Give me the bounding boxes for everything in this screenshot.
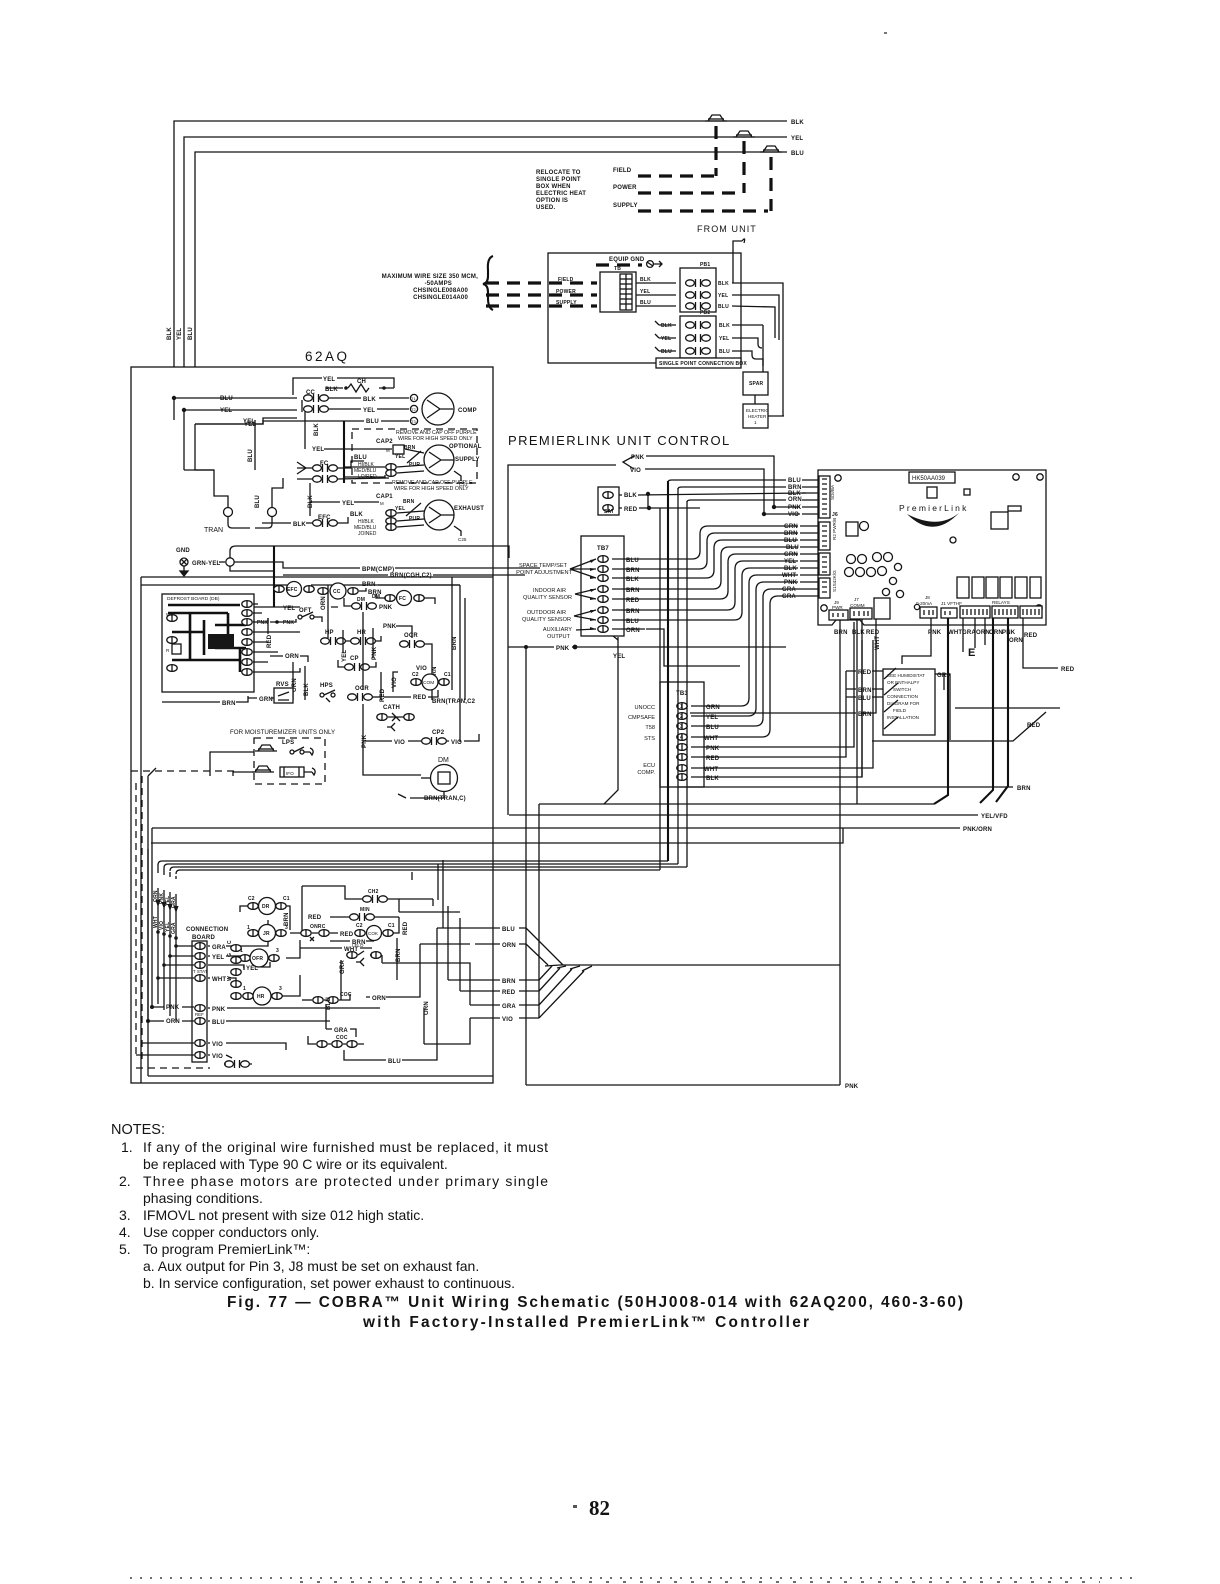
svg-text:YEL: YEL — [283, 606, 295, 612]
svg-text:GRN-YEL: GRN-YEL — [192, 561, 221, 567]
svg-text:FC: FC — [399, 596, 406, 602]
svg-text:RELOCATE TO: RELOCATE TO — [536, 170, 581, 176]
wire pnk border — [508, 646, 786, 648]
wire orn vert — [327, 585, 329, 638]
wire gra — [935, 674, 950, 690]
contact HR — [351, 630, 376, 645]
svg-text:BLK: BLK — [852, 630, 865, 636]
svg-text:SAT: SAT — [604, 509, 614, 515]
svg-text:QUALITY SENSOR: QUALITY SENSOR — [523, 595, 572, 601]
defrost board DB — [162, 594, 254, 692]
svg-text:J1 VFTHF: J1 VFTHF — [941, 601, 962, 606]
svg-text:ORN: ORN — [502, 943, 516, 949]
svg-text:PWR: PWR — [832, 605, 843, 610]
F terminal — [386, 510, 396, 517]
svg-text:IFO: IFO — [286, 771, 294, 776]
svg-text:COM: COM — [423, 680, 434, 686]
dot pnk border — [573, 645, 578, 650]
wires pb2 to right bus — [732, 325, 763, 366]
diode pair — [377, 713, 414, 731]
contact row top CH — [345, 889, 399, 912]
note RELOCATE — [536, 170, 586, 211]
svg-text:GRA: GRA — [334, 1028, 348, 1034]
caption auxiliary — [543, 627, 572, 640]
svg-text:YEL: YEL — [784, 559, 796, 565]
wire grn — [248, 697, 274, 699]
svg-text:WHT: WHT — [704, 767, 718, 773]
contactor CC poles — [304, 390, 329, 413]
svg-text:BLK: BLK — [293, 522, 306, 528]
humidistat wire BRN — [846, 688, 883, 690]
wire dm left — [421, 777, 430, 779]
wire brn under — [330, 940, 374, 942]
caption space temp — [516, 563, 572, 576]
TB3 risers to stack — [722, 575, 798, 706]
thick BLU drop — [343, 421, 345, 483]
svg-text:1: 1 — [247, 925, 250, 931]
svg-text:GRA: GRA — [171, 896, 177, 908]
svg-text:RELAYS: RELAYS — [992, 600, 1010, 605]
svg-text:S1S42K/G: S1S42K/G — [832, 570, 837, 592]
svg-text:POWER: POWER — [613, 185, 637, 191]
svg-text:OUTPUT: OUTPUT — [547, 634, 571, 640]
svg-text:BLK: BLK — [784, 566, 797, 572]
wire 841 — [151, 828, 843, 843]
board bottom labels — [834, 630, 1038, 644]
bundle rotated labels top — [153, 890, 177, 908]
wire blk sat — [619, 493, 806, 495]
brace — [483, 256, 493, 310]
svg-text:BLU: BLU — [255, 495, 261, 508]
contact CP2 — [394, 737, 462, 746]
svg-text:BRN(TRAN,C2: BRN(TRAN,C2 — [432, 699, 476, 705]
rail BPM — [274, 562, 360, 568]
comp aux circle — [411, 672, 451, 690]
wire brn bl — [162, 696, 248, 702]
svg-text:BLU: BLU — [719, 349, 730, 355]
svg-text:INDOOR AIR: INDOOR AIR — [533, 588, 566, 594]
svg-text:INSTALLATION: INSTALLATION — [887, 715, 919, 720]
cb wire pnk right — [208, 1007, 380, 1009]
svg-text:YEL: YEL — [640, 289, 650, 295]
wire gnd up loop — [230, 546, 509, 571]
wire cp — [338, 660, 376, 667]
TB7 box — [581, 536, 624, 636]
svg-text:R2 PWR/B: R2 PWR/B — [832, 518, 837, 540]
left connector J4 — [819, 570, 837, 598]
svg-text:4.: 4. — [119, 1224, 131, 1240]
svg-text:BRN: BRN — [502, 979, 516, 985]
relay HR — [243, 986, 282, 1005]
wire heater — [755, 325, 784, 416]
svg-text:YEL: YEL — [220, 408, 232, 414]
svg-text:BLK: BLK — [640, 277, 651, 283]
plug block PB2 — [680, 310, 716, 358]
bottom part box — [874, 598, 890, 619]
caption indoor air — [523, 588, 572, 601]
wire BLU L3 — [195, 152, 787, 424]
svg-text:WHT: WHT — [948, 630, 962, 636]
cb wire wht out — [208, 978, 236, 985]
svg-text:EXHAUST: EXHAUST — [454, 506, 484, 512]
svg-text:E: E — [968, 647, 975, 659]
cap2 body — [386, 445, 404, 454]
chevron diagonals — [526, 928, 592, 1018]
wire bpm cont — [395, 567, 540, 569]
left connector J2 — [819, 553, 830, 575]
svg-text:SPACE TEMP/SET: SPACE TEMP/SET — [519, 563, 568, 569]
svg-text:PB1: PB1 — [700, 262, 710, 268]
TB3 box — [660, 682, 704, 787]
dashed feeder FIELD — [486, 281, 597, 284]
svg-text:EQUIP GND: EQUIP GND — [609, 257, 645, 263]
contact HP — [321, 630, 346, 645]
svg-text:RED: RED — [1061, 667, 1075, 673]
svg-text:ORN: ORN — [788, 497, 802, 503]
svg-text:YEL: YEL — [243, 419, 255, 425]
note remove and cap off 1 — [396, 430, 477, 442]
cb wire blu right — [208, 1020, 330, 1022]
svg-text:MAXIMUM WIRE SIZE 350 MCM,: MAXIMUM WIRE SIZE 350 MCM, — [382, 274, 478, 280]
wire YEL L2 — [184, 137, 787, 410]
wire net left — [174, 398, 214, 470]
wire pnk right — [396, 626, 412, 638]
svg-text:YEL: YEL — [661, 336, 671, 342]
svg-text:BLU: BLU — [366, 419, 379, 425]
svg-text:To program PremierLink™:: To program PremierLink™: — [143, 1241, 310, 1257]
svg-text:3: 3 — [276, 948, 279, 954]
svg-text:CC: CC — [333, 589, 341, 595]
terminal gnd — [226, 558, 234, 566]
bracket under FROM UNIT — [733, 239, 745, 253]
dashed stub bottom — [131, 771, 236, 1068]
contact CP — [345, 656, 370, 671]
board drop wires jogs — [934, 618, 1008, 804]
svg-text:RED: RED — [340, 932, 354, 938]
wire red exit right — [1023, 618, 1058, 668]
stub BRN — [470, 979, 539, 981]
wire red sat — [619, 507, 700, 509]
svg-text:DEFROST BOARD (DB): DEFROST BOARD (DB) — [167, 596, 220, 602]
terminal block TB — [600, 266, 636, 312]
exh wires — [397, 511, 424, 527]
slash pointer exhaust — [406, 503, 421, 516]
logo swoosh — [907, 513, 959, 527]
svg-text:CHSINGLE008A00: CHSINGLE008A00 — [413, 288, 468, 294]
dashed riser from lug L2 — [742, 141, 745, 193]
supply fan wires — [344, 449, 424, 477]
svg-text:ORN: ORN — [372, 996, 386, 1002]
svg-text:Use copper conductors only.: Use copper conductors only. — [143, 1224, 319, 1240]
wire BLK L1 — [174, 121, 787, 398]
svg-text:a. Aux output for Pin 3, J8 mu: a. Aux output for Pin 3, J8 must be set … — [143, 1258, 479, 1274]
contact OCR — [400, 633, 432, 650]
relay coil FC — [385, 591, 424, 606]
vertical rail left inner — [140, 577, 142, 1083]
svg-text:ORN: ORN — [976, 630, 990, 636]
svg-text:YEL: YEL — [718, 293, 728, 299]
wire blk red drops — [857, 619, 862, 804]
svg-text:POWER: POWER — [556, 289, 576, 295]
lug on L1 — [705, 115, 727, 121]
svg-text:PNK: PNK — [379, 605, 393, 611]
svg-text:SPAR: SPAR — [749, 381, 764, 387]
svg-text:C2: C2 — [356, 923, 363, 929]
svg-text:RED: RED — [626, 598, 640, 604]
cb wires in — [158, 946, 194, 978]
svg-text:Three phase motors are protect: Three phase motors are protected under p… — [143, 1173, 548, 1189]
SAT box — [598, 487, 619, 515]
dashed feeder POWER — [486, 293, 597, 296]
svg-text:C1: C1 — [444, 672, 451, 678]
svg-text:C1: C1 — [388, 923, 395, 929]
wire yel ofr — [243, 962, 270, 967]
svg-text:FIELD: FIELD — [893, 708, 907, 713]
trunk verticals — [667, 481, 669, 861]
wires pb2 left stubs — [655, 321, 676, 351]
svg-text:FIELD: FIELD — [558, 277, 574, 283]
slash pointer supply — [407, 451, 421, 463]
svg-text:BRN(TRAN,C): BRN(TRAN,C) — [424, 796, 466, 802]
junction dot L1 — [172, 396, 176, 400]
svg-text:ELECTRIC HEAT: ELECTRIC HEAT — [536, 191, 586, 197]
svg-text:QUALITY SENSOR: QUALITY SENSOR — [522, 617, 571, 623]
svg-text:C: C — [227, 940, 233, 944]
bottom strip 1 — [960, 606, 990, 618]
svg-text:YEL: YEL — [613, 654, 625, 660]
svg-text:COK: COK — [368, 931, 379, 936]
svg-text:GRA: GRA — [962, 630, 976, 636]
svg-text:C2: C2 — [412, 672, 419, 678]
comp terminal T3 — [410, 417, 417, 424]
svg-text:SINGLE POINT: SINGLE POINT — [536, 177, 581, 183]
stub RED — [470, 990, 539, 992]
contact row min — [330, 907, 399, 921]
wire orn cb — [148, 1020, 194, 1022]
svg-text:BLU: BLU — [188, 327, 194, 340]
bundle arrows — [155, 900, 160, 907]
wires into moisturemizer — [210, 752, 254, 776]
wires pb1 to right bus — [732, 283, 783, 416]
wire gra flo — [341, 955, 382, 1000]
stub GRA — [470, 1004, 539, 1006]
svg-text:T STAT: T STAT — [193, 969, 208, 974]
svg-text:BLK: BLK — [718, 281, 729, 287]
svg-text:LPS: LPS — [282, 740, 294, 746]
svg-text:BLU: BLU — [326, 997, 332, 1010]
transformer TRAN — [204, 502, 277, 534]
svg-text:OPTIONAL: OPTIONAL — [449, 444, 482, 450]
svg-text:ORN: ORN — [321, 596, 327, 610]
svg-text:BRN: BRN — [784, 531, 798, 537]
svg-text:SDI/BA: SDI/BA — [830, 484, 835, 500]
svg-text:HK50AA039: HK50AA039 — [912, 476, 946, 482]
svg-text:JR: JR — [263, 931, 270, 937]
svg-text:BLU: BLU — [212, 1020, 225, 1026]
vertical 526 — [525, 647, 527, 1085]
svg-text:M: M — [386, 448, 390, 453]
svg-text:OUTDOOR AIR: OUTDOOR AIR — [527, 610, 566, 616]
svg-text:CAP1: CAP1 — [376, 494, 393, 500]
wire VIO top — [645, 469, 800, 514]
coil COK — [355, 923, 395, 941]
compressor motor COMP — [422, 393, 477, 425]
cb wire yel out — [208, 956, 256, 964]
optional dashed box — [352, 429, 477, 483]
wire wht drop — [862, 619, 876, 713]
c23 hook — [454, 471, 461, 481]
gnd screw symbol — [647, 261, 662, 268]
svg-text:OCR: OCR — [404, 633, 418, 639]
svg-text:HP: HP — [325, 630, 334, 636]
svg-text:YEL: YEL — [395, 506, 405, 512]
dashed riser from lug L1 — [714, 126, 717, 176]
relay coil CC — [318, 583, 358, 599]
svg-text:W1: W1 — [166, 612, 173, 617]
svg-text:IFMOVL not present with size 0: IFMOVL not present with size 012 high st… — [143, 1207, 424, 1223]
svg-text:YEL: YEL — [395, 454, 405, 460]
svg-text:BLK: BLK — [706, 776, 719, 782]
rail top — [141, 576, 493, 578]
ic square 2 — [964, 489, 970, 495]
svg-text:SWITCH: SWITCH — [893, 687, 911, 692]
svg-text:WHT: WHT — [212, 977, 226, 983]
wire blu low — [344, 928, 437, 1060]
box RVS — [274, 682, 293, 703]
svg-text:DR: DR — [262, 904, 270, 910]
caption outdoor air — [522, 610, 571, 623]
wire pnk cb — [152, 1006, 194, 1008]
svg-text:GRN: GRN — [706, 705, 720, 711]
dashed wire POWER — [638, 191, 742, 194]
svg-text:T3: T3 — [411, 419, 416, 424]
verticals right cluster — [412, 860, 460, 991]
wire 804 — [539, 803, 934, 805]
svg-text:HPS: HPS — [320, 683, 333, 689]
wire orn tall — [423, 1008, 425, 1044]
wire to comp T3 — [195, 421, 409, 424]
svg-text:J6: J6 — [832, 512, 838, 518]
svg-text:OPTION IS: OPTION IS — [536, 198, 568, 204]
svg-text:BLK: BLK — [661, 323, 672, 329]
svg-text:PNK: PNK — [928, 630, 942, 636]
dot blk — [646, 492, 650, 496]
wire vio cp2 — [365, 734, 479, 741]
spar box — [743, 372, 768, 395]
svg-text:BLK: BLK — [167, 327, 173, 340]
wire TB to PB1 YEL — [636, 294, 676, 296]
svg-text:TB7: TB7 — [597, 546, 609, 552]
label connection board — [186, 927, 228, 941]
svg-text:C2: C2 — [248, 896, 255, 902]
svg-text:AUXILIARY: AUXILIARY — [543, 627, 572, 633]
svg-text:OFR: OFR — [252, 956, 263, 962]
supply fan motor — [424, 445, 480, 475]
trunk corner tops — [668, 480, 786, 502]
wire tran drop left — [195, 424, 228, 502]
svg-text:RED: RED — [267, 634, 273, 648]
svg-text:3: 3 — [680, 724, 683, 730]
svg-text:W: W — [227, 976, 233, 981]
svg-text:YEL: YEL — [363, 408, 375, 414]
svg-text:MIN: MIN — [360, 907, 370, 913]
rail 585 — [141, 584, 460, 586]
svg-text:CMPSAFE: CMPSAFE — [628, 715, 655, 721]
cb wire vio2 — [208, 1055, 232, 1058]
svg-text:FROM UNIT: FROM UNIT — [697, 224, 757, 234]
svg-text:GRA: GRA — [212, 945, 226, 951]
exh terminals — [386, 518, 396, 531]
svg-text:T58: T58 — [645, 725, 655, 731]
svg-text:YEL: YEL — [719, 336, 729, 342]
cb tiny texts — [193, 969, 208, 1017]
wire brn vert — [431, 650, 433, 700]
contact below cb — [225, 1060, 252, 1068]
chevron trunk — [560, 964, 840, 966]
wire CC to comp T2 — [328, 408, 409, 410]
fc speed labels — [354, 462, 377, 480]
svg-text:BLU: BLU — [661, 349, 672, 355]
wire 849 vertical — [538, 804, 540, 1018]
svg-text:4: 4 — [680, 735, 683, 741]
svg-text:YEL: YEL — [246, 966, 258, 972]
svg-text:BLK: BLK — [624, 493, 637, 499]
svg-text:-50AMPS: -50AMPS — [425, 281, 452, 287]
svg-text:BLU: BLU — [626, 558, 639, 564]
svg-text:BLK: BLK — [325, 387, 338, 393]
TB7 right labels — [626, 558, 640, 634]
gnd heavy drop — [273, 546, 275, 607]
svg-text:CAP2: CAP2 — [376, 439, 393, 445]
wire cc brn — [359, 585, 460, 591]
speck — [884, 32, 887, 34]
stub VIO — [470, 1017, 539, 1019]
TB3 left captions — [628, 705, 655, 776]
svg-text:BRN: BRN — [403, 499, 415, 505]
relay bank — [957, 577, 1041, 598]
long wire pnk orn — [152, 827, 960, 829]
bundle wire GRA — [176, 870, 660, 1022]
box 62AQ outline — [131, 367, 493, 1083]
c25 hook — [454, 526, 461, 536]
svg-text:ORN: ORN — [166, 1019, 180, 1025]
dot red — [647, 506, 651, 510]
svg-text:VIO: VIO — [502, 1017, 513, 1023]
dot pnb — [275, 620, 279, 624]
svg-text:SINGLE POINT CONNECTION BOX: SINGLE POINT CONNECTION BOX — [659, 361, 747, 367]
svg-text:3: 3 — [285, 925, 288, 931]
svg-text:PNK: PNK — [788, 505, 802, 511]
corner pnk orn left — [148, 828, 152, 1021]
right rail verts — [452, 577, 465, 742]
small part a — [846, 522, 869, 537]
bottom pnk wire — [526, 1084, 840, 1086]
humidistat wire BRN2 — [690, 712, 856, 714]
svg-text:ORN: ORN — [285, 654, 299, 660]
dot 526 — [524, 645, 528, 649]
cb wire vio2 in — [136, 1054, 194, 1056]
svg-text:PNK: PNK — [383, 624, 397, 630]
contact PN row — [344, 597, 393, 611]
svg-text:BLK: BLK — [363, 397, 376, 403]
electric heater box — [743, 404, 769, 428]
svg-text:WHT: WHT — [782, 573, 796, 579]
svg-text:BLU: BLU — [388, 1059, 401, 1065]
label single point connection box — [656, 358, 747, 368]
left connector J5 — [819, 518, 837, 550]
gnd wire to terminal — [219, 561, 225, 563]
svg-text:RED: RED — [403, 921, 409, 935]
